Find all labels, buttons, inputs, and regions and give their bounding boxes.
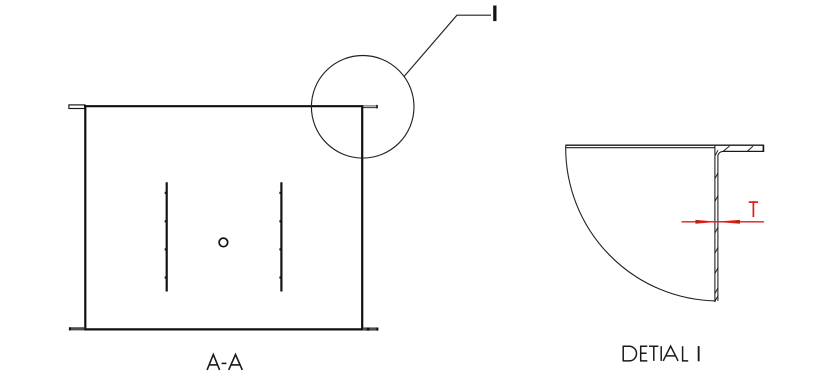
detail view : wall hatch marks bbox=[715, 150, 718, 294]
leader line from detail circle to label I bbox=[404, 15, 491, 76]
detail view : top plate left end cap bbox=[565, 145, 567, 149]
section view A-A : bottom-right flange stub dark spot bbox=[367, 328, 370, 331]
caption A-A bbox=[207, 355, 242, 370]
section view A-A : left interior weld/stitch line bbox=[165, 182, 167, 291]
section view A-A : center hole bbox=[219, 238, 228, 247]
section view A-A : top-left flange stub (open thin plate) bbox=[69, 105, 85, 109]
section view A-A : bottom-right flange stub end cap bbox=[376, 328, 378, 331]
red dimension arrow pointing right bbox=[695, 220, 718, 224]
detail view : flange right end cap bbox=[762, 145, 764, 152]
section view A-A : right wall bbox=[361, 105, 363, 330]
section view A-A : bottom-left flange stub end cap bbox=[69, 327, 71, 330]
detail view : circular break-out arc boundary bbox=[566, 148, 716, 301]
detail view : wall left line bbox=[714, 145, 716, 301]
label I bbox=[493, 6, 496, 22]
section view A-A : bottom-right flange stub bbox=[363, 327, 378, 330]
section view A-A : top-right flange stub bottom line bbox=[363, 107, 377, 109]
section view A-A : top plate line bbox=[84, 105, 363, 107]
detail view : top plate outer line bbox=[566, 144, 764, 146]
detail circle I around top-right corner bbox=[311, 56, 414, 159]
red dimension label T bbox=[749, 201, 758, 217]
detail view : flange bottom line bbox=[723, 150, 764, 152]
caption DETIAL bbox=[623, 346, 689, 361]
detail view : top plate inner line bbox=[566, 147, 715, 149]
detail view : wall right line bbox=[717, 157, 719, 301]
detail view : fillet between wall and flange bbox=[718, 151, 723, 157]
red thickness dimension line bbox=[682, 221, 764, 223]
section view A-A : bottom-left flange stub bbox=[69, 327, 84, 330]
section view A-A : right interior weld/stitch line bbox=[279, 182, 281, 291]
red dimension arrow pointing left bbox=[715, 220, 740, 224]
caption detail number I bbox=[698, 346, 700, 361]
detail view : flange hatch marks bbox=[723, 146, 753, 151]
detail view : wall bottom tip diagonal bbox=[715, 296, 719, 302]
section view A-A : top-right flange stub end cap bbox=[376, 105, 378, 109]
section view A-A : top-right flange stub top line bbox=[363, 105, 377, 107]
section view A-A : left wall bbox=[84, 105, 86, 330]
section view A-A : bottom plate line bbox=[84, 328, 363, 330]
red arrow base dots bbox=[696, 220, 699, 223]
